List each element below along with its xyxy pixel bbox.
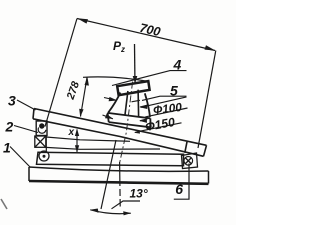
- base plate bottom heavy edge: [29, 181, 209, 184]
- dimension F100 inner segment: [132, 100, 140, 102]
- workpiece flange bottom edge: [109, 122, 151, 127]
- workpiece flange left edge: [108, 113, 109, 122]
- dimension 700 line: [77, 19, 215, 51]
- label 6 bracket: [174, 164, 189, 200]
- dimension F100 left arrow: [104, 98, 117, 101]
- dimension 278 bottom arrowhead: [79, 109, 83, 117]
- angle arc: [90, 210, 131, 214]
- middle strip bottom edge: [46, 147, 160, 149]
- workpiece flange top edge: [108, 113, 151, 118]
- dimension F100 shelf: [145, 108, 187, 117]
- angle arc left arrowhead: [90, 209, 99, 213]
- svg-text:x: x: [68, 127, 75, 138]
- dimension 700 right extension line: [198, 51, 216, 149]
- upper plate pivot circle: [39, 151, 49, 161]
- roller 6 circle with cross: [184, 157, 193, 166]
- bar 3 (inclined lever): [33, 109, 207, 157]
- dimension 278 top extension line: [83, 77, 149, 82]
- dimension 700 left extension line: [45, 19, 77, 127]
- svg-text:13°: 13°: [130, 187, 148, 201]
- svg-text:3: 3: [8, 93, 16, 109]
- dimension F150 leader arrow to bar: [135, 131, 141, 132]
- hinge column right edge: [45, 136, 47, 152]
- svg-text:2: 2: [5, 119, 14, 135]
- hinge pin box with X: [35, 136, 46, 147]
- dimension F150 shelf: [140, 123, 182, 131]
- label 4 leader: [112, 71, 187, 86]
- dimension 700 right arrowhead: [205, 45, 216, 50]
- svg-text:6: 6: [175, 181, 183, 197]
- hinge lug box: [36, 121, 47, 136]
- middle strip top edge: [46, 137, 130, 141]
- dimension F150 right arrow: [140, 119, 148, 121]
- dimension F100 upper leader: [141, 97, 187, 107]
- angle arc right arrowhead: [123, 211, 131, 215]
- dimension 278 line: [81, 78, 88, 117]
- label 1 leader: [10, 147, 31, 168]
- base plate 1: [29, 167, 209, 184]
- dimension F150 left arrow: [103, 115, 113, 119]
- workpiece right bell edge: [145, 93, 150, 117]
- dimension F100 right arrow: [140, 105, 148, 107]
- roller housing: [182, 153, 198, 169]
- workpiece neck right inner line: [137, 90, 140, 117]
- page artifact bottom-left: [1, 199, 7, 209]
- svg-text:1: 1: [3, 140, 11, 156]
- label 2 leader: [14, 126, 38, 133]
- workpiece left bell edge: [108, 93, 120, 113]
- 13 degrees leader: [112, 201, 141, 209]
- dimension 700 left arrowhead: [77, 18, 88, 23]
- workpiece centerline dashed: [120, 82, 133, 162]
- angle left line (axis extension): [101, 140, 116, 209]
- label 3 leader: [17, 100, 36, 110]
- workpiece flange right edge: [149, 118, 152, 127]
- workpiece pad 4: [117, 81, 149, 95]
- upper plate: [37, 152, 184, 166]
- workpiece neck left inner line: [125, 91, 128, 115]
- force Pz arrow: [134, 44, 136, 78]
- dimension 278 top arrowhead: [85, 77, 89, 86]
- label 5 leader: [142, 96, 187, 100]
- angle vertical dashed line: [119, 162, 122, 207]
